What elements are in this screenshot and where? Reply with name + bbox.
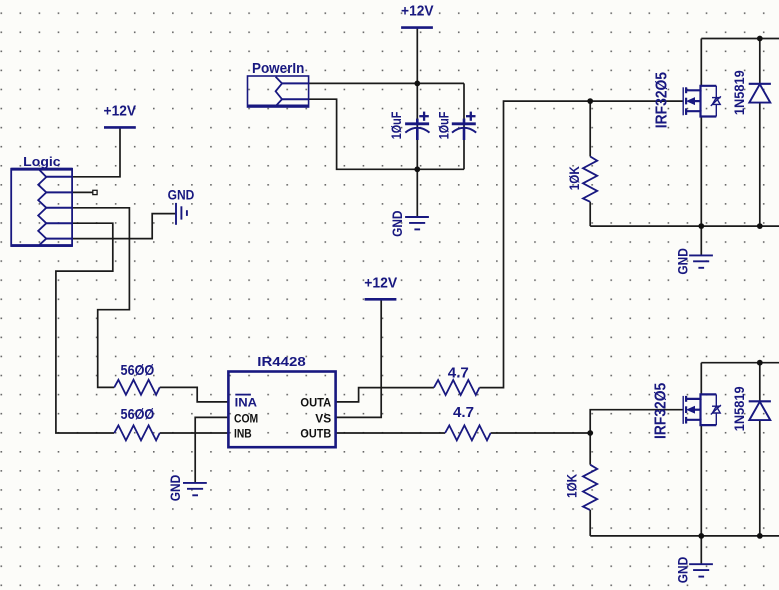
svg-text:1ØK: 1ØK [563, 474, 579, 498]
svg-text:1ØuF: 1ØuF [388, 111, 404, 139]
svg-text:4.7: 4.7 [453, 404, 474, 421]
svg-text:1N5819: 1N5819 [731, 70, 747, 115]
wire Logic pin3 to 5600 A [72, 208, 129, 388]
node open end square [93, 190, 97, 194]
wire C1 branch [416, 83, 418, 169]
wire Logic pin1 to +12V [72, 128, 120, 176]
resistor 10K upper [566, 157, 597, 202]
wire Q1 drain [700, 39, 702, 86]
wire Q1 source [700, 117, 702, 227]
svg-text:56ØØ: 56ØØ [121, 406, 155, 423]
svg-text:OUTA: OUTA [300, 395, 331, 409]
wire bottom node to GND [416, 169, 418, 216]
svg-text:GND: GND [167, 475, 183, 501]
supply +12V mid [364, 274, 397, 299]
ground G2 near Logic (rotated) [176, 203, 187, 225]
capacitor C2 10uF [435, 111, 476, 140]
diode D2 1N5819 [731, 386, 771, 431]
svg-text:+12V: +12V [104, 103, 137, 120]
wire Q2 source [700, 425, 702, 536]
resistor 5600 B [114, 406, 160, 440]
supply +12V left [104, 103, 137, 128]
resistor 4.7 B [445, 404, 491, 440]
svg-text:GND: GND [168, 187, 195, 203]
resistor 10K lower [563, 465, 597, 510]
transistor Q1 IRF3205 [653, 72, 721, 128]
svg-text:4.7: 4.7 [448, 364, 469, 381]
wire OUTB to 4.7 B [336, 432, 446, 434]
diode D1 1N5819 [731, 70, 771, 115]
svg-text:GND: GND [674, 248, 690, 274]
svg-text:COM: COM [234, 411, 258, 425]
svg-text:GND: GND [389, 211, 405, 237]
wire node to gate Q2 [590, 410, 683, 433]
wire lower top rail [701, 362, 779, 364]
svg-text:56ØØ: 56ØØ [121, 362, 155, 379]
svg-text:+12V: +12V [401, 2, 434, 19]
wire 4.7 A to gate Q1 [479, 101, 683, 388]
svg-text:GND: GND [674, 557, 690, 583]
wire VS to +12V [336, 300, 382, 417]
ground G3 under COM [167, 475, 207, 501]
svg-text:VS: VS [315, 411, 331, 425]
wire +12V top to top node [416, 28, 418, 83]
wire 10K upper leads [589, 101, 591, 156]
wire OUTA to 4.7 A [336, 388, 434, 402]
wire stub to lower-right GND [700, 536, 702, 564]
connector PowerIn [247, 60, 309, 107]
resistor 4.7 A [434, 364, 480, 395]
svg-text:IRF32Ø5: IRF32Ø5 [653, 72, 670, 128]
svg-text:INA: INA [235, 395, 258, 409]
wire upper ground rail [590, 225, 779, 227]
ground G4 upper right [674, 248, 712, 274]
svg-text:INB: INB [234, 426, 252, 440]
capacitor C1 10uF [388, 111, 430, 140]
wire Logic pin5 to GND [72, 214, 175, 239]
wire Logic pin2 stub [72, 191, 93, 193]
wire 10K lower leads [589, 433, 591, 465]
connector Logic [11, 154, 72, 246]
ground G1 under caps [389, 211, 429, 237]
ground G5 lower right [674, 557, 712, 583]
svg-text:+12V: +12V [364, 274, 397, 291]
svg-text:1N5819: 1N5819 [731, 386, 747, 431]
wire C2 branch [463, 83, 465, 169]
wire Q2 drain [700, 363, 702, 395]
pin INA (inverted) [235, 395, 258, 410]
wire COM to GND [195, 417, 228, 482]
wire 5600 A to INA [160, 387, 229, 402]
svg-text:IRF32Ø5: IRF32Ø5 [653, 383, 670, 439]
wire upper top rail [701, 38, 779, 40]
transistor Q2 IRF3205 [653, 383, 721, 439]
wire lower ground rail [590, 535, 779, 537]
wire 4.7 B to node [491, 432, 591, 434]
svg-text:PowerIn: PowerIn [252, 60, 304, 77]
wire Logic pin4 to 5600 B [56, 223, 114, 433]
svg-text:1ØuF: 1ØuF [435, 111, 451, 139]
supply +12V top [401, 2, 434, 27]
wire PowerIn pin2 to bottom node [309, 99, 464, 169]
wire 5600 B to INB [160, 432, 229, 434]
wire D2 leads [759, 363, 761, 401]
svg-text:Logic: Logic [23, 154, 60, 169]
resistor 5600 A [114, 362, 160, 395]
wire D1 leads [759, 39, 761, 84]
svg-text:IR4428: IR4428 [257, 355, 305, 369]
wire stub to upper-right GND [700, 226, 702, 255]
svg-text:OUTB: OUTB [300, 426, 331, 440]
wire top node horizontal [309, 82, 464, 84]
svg-text:1ØK: 1ØK [566, 166, 582, 190]
IC U1 IR4428 [228, 355, 335, 447]
